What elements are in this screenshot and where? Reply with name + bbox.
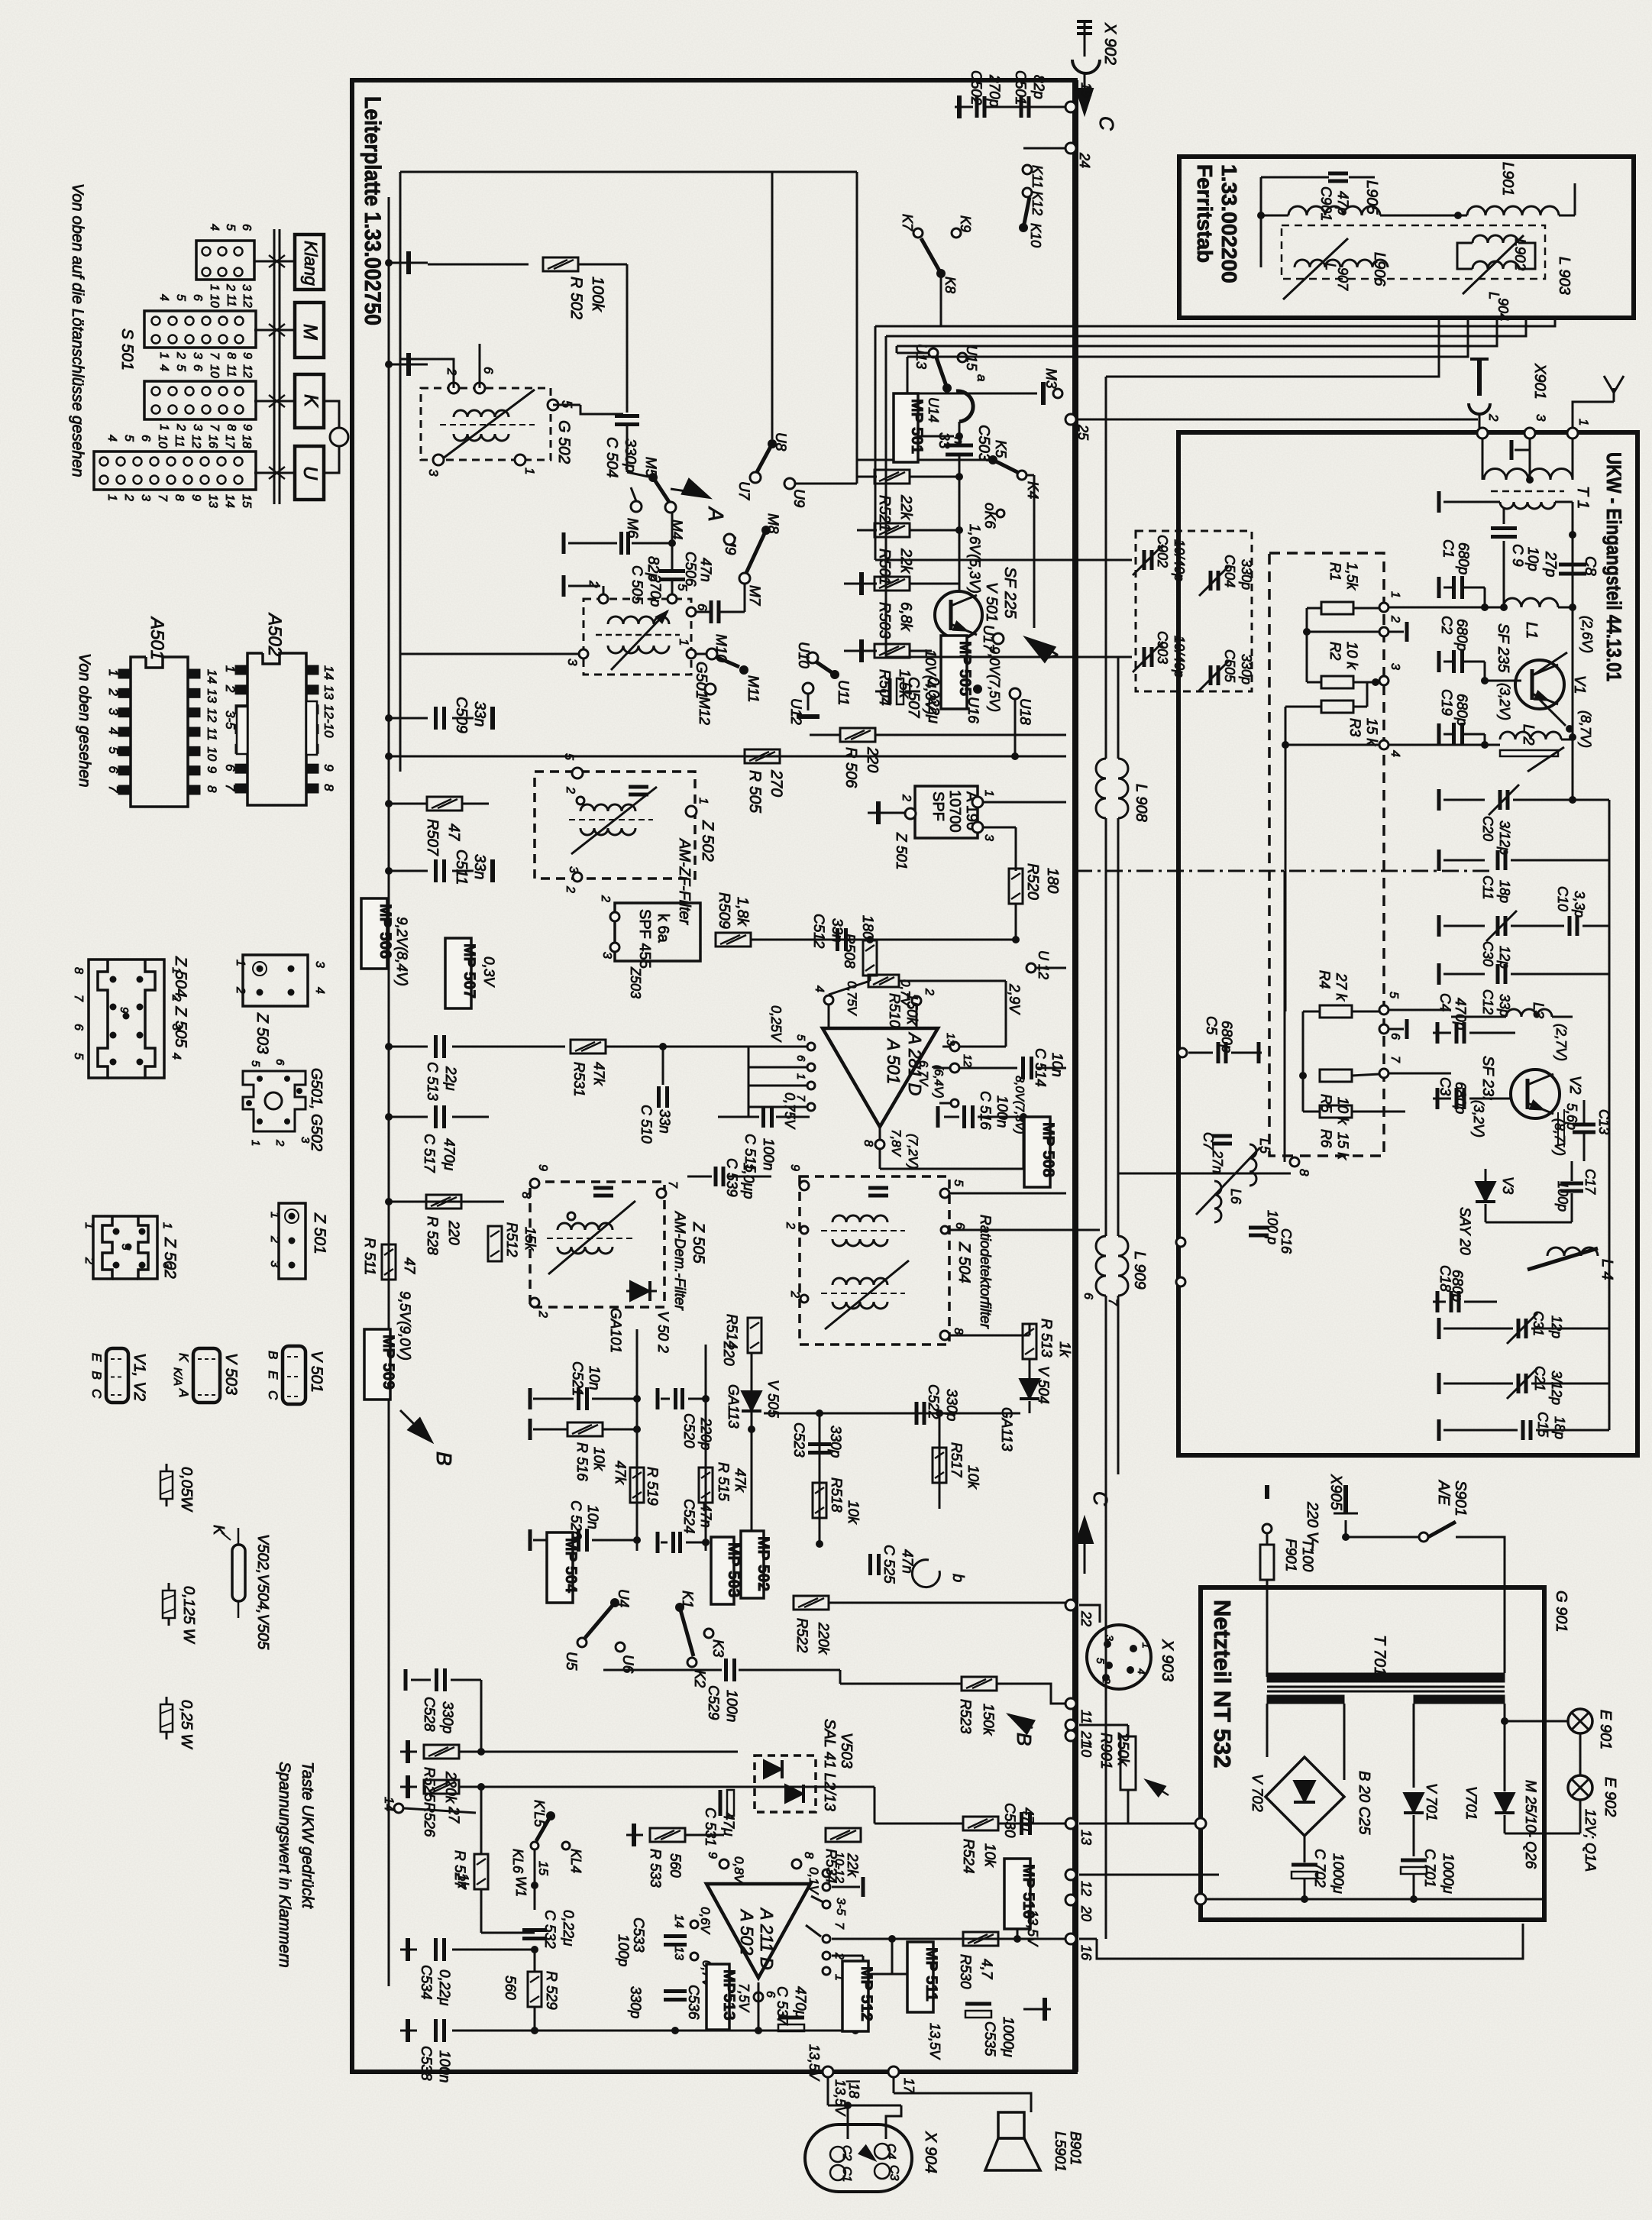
svg-text:5: 5: [174, 364, 187, 371]
svg-text:R 516: R 516: [574, 1442, 590, 1481]
svg-text:M 25/10- Q26: M 25/10- Q26: [1522, 1780, 1538, 1869]
svg-text:470μ: 470μ: [441, 1138, 457, 1171]
svg-text:16: 16: [206, 435, 219, 448]
svg-text:11: 11: [1078, 1710, 1094, 1724]
svg-text:2: 2: [587, 580, 601, 588]
svg-text:1: 1: [1389, 591, 1401, 598]
svg-text:C19: C19: [1438, 689, 1454, 716]
svg-text:3: 3: [106, 708, 121, 716]
svg-text:C501: C501: [1012, 70, 1028, 105]
svg-text:(7,2V): (7,2V): [906, 1134, 920, 1169]
svg-text:(6,4V): (6,4V): [932, 1065, 945, 1099]
svg-text:6: 6: [953, 1222, 966, 1229]
svg-text:U11: U11: [835, 680, 851, 705]
svg-text:25: 25: [1075, 424, 1091, 441]
svg-text:B: B: [89, 1371, 104, 1380]
svg-text:2: 2: [900, 794, 913, 801]
svg-text:100n: 100n: [994, 1095, 1010, 1128]
svg-text:X 902: X 902: [1101, 22, 1119, 65]
svg-text:R534: R534: [823, 1849, 839, 1883]
svg-text:22k: 22k: [844, 1853, 860, 1878]
svg-text:11: 11: [225, 294, 238, 307]
svg-text:2: 2: [536, 1310, 549, 1318]
svg-text:6: 6: [481, 367, 496, 374]
svg-text:U9: U9: [790, 489, 807, 508]
svg-text:C529: C529: [705, 1685, 721, 1720]
svg-text:L5: L5: [1257, 1138, 1272, 1154]
svg-text:5: 5: [119, 1244, 132, 1251]
svg-text:2: 2: [273, 1139, 286, 1147]
svg-text:14: 14: [322, 665, 336, 680]
svg-text:680p: 680p: [1455, 542, 1471, 574]
svg-text:270p: 270p: [986, 74, 1002, 107]
svg-text:100n: 100n: [436, 2050, 452, 2082]
svg-text:13: 13: [322, 685, 336, 700]
svg-text:C 517: C 517: [421, 1134, 437, 1173]
svg-text:9,2V(8,4V): 9,2V(8,4V): [393, 917, 409, 986]
svg-text:C10: C10: [1555, 886, 1570, 911]
svg-text:C505: C505: [1222, 649, 1237, 683]
svg-text:AM-Dem.-Filter: AM-Dem.-Filter: [671, 1211, 687, 1310]
svg-text:R531: R531: [571, 1062, 587, 1096]
svg-text:SAY 20: SAY 20: [1456, 1207, 1473, 1255]
svg-text:C 516: C 516: [977, 1091, 993, 1130]
svg-text:GA101: GA101: [607, 1308, 623, 1353]
svg-text:5: 5: [224, 224, 237, 231]
svg-text:C538: C538: [418, 2046, 434, 2081]
svg-text:K2: K2: [691, 1670, 707, 1688]
svg-text:C503: C503: [975, 425, 992, 461]
svg-text:KL4: KL4: [568, 1849, 584, 1873]
svg-text:47: 47: [445, 824, 462, 841]
svg-text:C: C: [266, 1390, 280, 1400]
svg-text:R6: R6: [1317, 1129, 1334, 1148]
svg-text:R3: R3: [1346, 718, 1363, 737]
svg-text:12: 12: [241, 364, 254, 378]
svg-text:T 1: T 1: [1574, 486, 1592, 509]
svg-text:10k: 10k: [590, 1447, 606, 1471]
svg-text:2: 2: [564, 786, 577, 794]
svg-text:10: 10: [1078, 1742, 1094, 1757]
svg-text:V3: V3: [1499, 1176, 1515, 1195]
svg-text:Z 504, Z 505: Z 504, Z 505: [172, 956, 189, 1047]
svg-text:14: 14: [223, 494, 236, 508]
svg-text:1: 1: [697, 798, 710, 804]
svg-text:C31: C31: [1531, 1311, 1546, 1336]
svg-text:9: 9: [189, 494, 202, 501]
svg-text:U: U: [299, 466, 321, 481]
svg-text:5: 5: [122, 435, 135, 442]
svg-text:(3,2V): (3,2V): [1497, 683, 1512, 720]
svg-text:K: K: [300, 394, 322, 408]
svg-text:100n: 100n: [760, 1138, 776, 1170]
svg-text:MP 508: MP 508: [1039, 1122, 1057, 1177]
svg-text:U14: U14: [926, 397, 941, 422]
svg-text:330p: 330p: [627, 1986, 643, 2018]
svg-text:8: 8: [225, 352, 238, 359]
svg-text:MP513: MP513: [720, 1969, 738, 2021]
svg-text:T 701: T 701: [1371, 1635, 1389, 1676]
svg-text:1,8k: 1,8k: [734, 897, 751, 927]
svg-text:X 903: X 903: [1159, 1639, 1176, 1681]
svg-text:MP 512: MP 512: [858, 1966, 875, 2021]
svg-text:0,22μ: 0,22μ: [560, 1910, 576, 1947]
svg-text:0,25 W: 0,25 W: [178, 1700, 195, 1749]
svg-text:3: 3: [982, 834, 995, 841]
svg-text:1000μ: 1000μ: [1440, 1853, 1456, 1894]
svg-text:L 2: L 2: [1520, 724, 1537, 745]
svg-text:MP 501: MP 501: [908, 399, 926, 454]
svg-text:47: 47: [401, 1257, 417, 1275]
svg-text:10 k: 10 k: [1334, 1097, 1350, 1125]
svg-text:330p: 330p: [1239, 654, 1254, 684]
svg-text:82p: 82p: [1030, 75, 1046, 99]
svg-text:C 701: C 701: [1421, 1849, 1437, 1888]
svg-text:C 532: C 532: [542, 1910, 558, 1949]
svg-text:U 12: U 12: [1036, 950, 1051, 979]
svg-text:K: K: [176, 1353, 191, 1362]
svg-text:15 k: 15 k: [1334, 1132, 1350, 1160]
svg-text:0,3V: 0,3V: [480, 956, 496, 988]
svg-text:C12: C12: [1480, 989, 1495, 1015]
svg-text:K/A: K/A: [171, 1367, 184, 1386]
svg-text:R503: R503: [876, 602, 893, 639]
svg-text:R 533: R 533: [647, 1849, 663, 1888]
svg-text:5: 5: [106, 746, 121, 754]
svg-text:6: 6: [695, 604, 710, 611]
svg-text:12: 12: [241, 294, 254, 308]
svg-text:2: 2: [1486, 413, 1501, 422]
svg-text:R 513: R 513: [1038, 1319, 1054, 1358]
svg-text:C506: C506: [682, 552, 698, 587]
svg-text:9: 9: [241, 424, 254, 431]
svg-text:(2,7V): (2,7V): [1553, 1024, 1569, 1061]
svg-text:12: 12: [1078, 1881, 1094, 1896]
svg-text:7,5V: 7,5V: [736, 1983, 752, 2013]
svg-text:SF 235: SF 235: [1495, 623, 1511, 673]
svg-text:4: 4: [313, 987, 326, 994]
svg-text:V503: V503: [838, 1733, 855, 1769]
svg-text:220: 220: [445, 1220, 461, 1245]
svg-text:C17: C17: [1582, 1169, 1598, 1195]
svg-text:V 501: V 501: [983, 582, 1000, 622]
svg-text:(3,2V): (3,2V): [1471, 1100, 1486, 1138]
svg-text:680p: 680p: [1449, 1270, 1465, 1302]
svg-text:3: 3: [240, 284, 253, 291]
svg-text:C11: C11: [1480, 875, 1495, 900]
svg-text:M5: M5: [642, 457, 658, 477]
svg-text:250k: 250k: [1114, 1732, 1131, 1766]
svg-text:2: 2: [923, 988, 936, 995]
svg-text:R520: R520: [1024, 863, 1041, 900]
svg-text:907: 907: [1335, 267, 1350, 291]
svg-text:C8: C8: [1582, 556, 1599, 576]
svg-text:10700: 10700: [946, 790, 963, 833]
svg-text:U5: U5: [563, 1652, 579, 1671]
svg-text:10/40p: 10/40p: [1172, 539, 1187, 581]
svg-text:KL6: KL6: [510, 1849, 525, 1874]
svg-text:20: 20: [1078, 1905, 1094, 1921]
svg-text:47p: 47p: [1334, 191, 1350, 215]
svg-text:E: E: [89, 1353, 104, 1362]
svg-text:100p: 100p: [1555, 1181, 1570, 1212]
svg-text:X 904: X 904: [922, 2131, 939, 2173]
svg-text:18: 18: [240, 435, 253, 448]
svg-text:1: 1: [677, 639, 691, 646]
svg-text:K9: K9: [958, 215, 973, 232]
svg-text:1: 1: [223, 665, 238, 672]
svg-text:C30: C30: [1480, 941, 1495, 966]
svg-text:Leiterplatte 1.33.002750: Leiterplatte 1.33.002750: [360, 96, 385, 325]
svg-text:B: B: [1013, 1733, 1036, 1746]
svg-text:K4: K4: [1024, 481, 1040, 499]
svg-text:1,0μp: 1,0μp: [740, 1163, 756, 1199]
svg-text:L901: L901: [1499, 162, 1516, 196]
svg-text:C 531: C 531: [702, 1807, 718, 1846]
svg-text:10n: 10n: [586, 1366, 602, 1390]
svg-text:1: 1: [157, 352, 170, 359]
svg-text:1: 1: [82, 1222, 95, 1229]
svg-text:330p: 330p: [827, 1426, 843, 1458]
svg-text:MP 505: MP 505: [956, 641, 974, 696]
svg-text:C2: C2: [840, 2145, 853, 2161]
svg-text:8: 8: [952, 1328, 965, 1335]
svg-text:10: 10: [205, 746, 219, 761]
svg-text:15 k: 15 k: [1363, 718, 1379, 746]
svg-text:M12: M12: [696, 697, 712, 725]
svg-text:680p: 680p: [1453, 619, 1469, 651]
svg-text:V 702: V 702: [1249, 1774, 1265, 1812]
svg-text:5,6p: 5,6p: [1564, 1103, 1579, 1130]
svg-text:R526: R526: [421, 1802, 437, 1837]
svg-text:R523: R523: [957, 1699, 973, 1734]
svg-text:47k: 47k: [612, 1461, 628, 1485]
svg-text:2: 2: [174, 423, 187, 431]
svg-text:4: 4: [208, 224, 221, 231]
svg-text:b: b: [949, 1574, 966, 1582]
svg-text:A/E: A/E: [1435, 1480, 1452, 1506]
svg-text:L 909: L 909: [1131, 1251, 1148, 1290]
svg-text:SF 225: SF 225: [1001, 567, 1019, 619]
svg-text:R1: R1: [1327, 562, 1343, 581]
svg-text:8: 8: [1297, 1169, 1311, 1176]
svg-text:K'L5: K'L5: [532, 1800, 547, 1827]
svg-text:6: 6: [223, 764, 238, 772]
svg-text:470p: 470p: [1452, 998, 1468, 1030]
svg-text:13,5V: 13,5V: [1025, 1910, 1040, 1947]
svg-text:R509: R509: [716, 892, 732, 929]
svg-text:7: 7: [223, 784, 238, 791]
svg-text:11: 11: [205, 727, 219, 741]
svg-text:220k: 220k: [815, 1622, 831, 1655]
svg-text:22: 22: [1078, 1610, 1094, 1626]
svg-text:3-5: 3-5: [223, 710, 238, 730]
svg-text:R901: R901: [1098, 1733, 1114, 1769]
svg-text:R 529: R 529: [543, 1971, 559, 2010]
svg-text:C15: C15: [1535, 1412, 1550, 1438]
svg-text:X901: X901: [1531, 363, 1548, 400]
svg-text:Z503: Z503: [628, 966, 643, 998]
svg-text:10k: 10k: [965, 1465, 981, 1490]
svg-text:13: 13: [672, 1947, 685, 1960]
svg-text:C 525: C 525: [881, 1545, 897, 1584]
svg-text:12-10: 12-10: [322, 704, 336, 738]
svg-text:33n: 33n: [471, 854, 488, 879]
svg-text:1k: 1k: [1056, 1341, 1072, 1358]
svg-text:V 501: V 501: [308, 1351, 325, 1393]
svg-text:C528: C528: [421, 1697, 437, 1732]
svg-text:C533: C533: [630, 1917, 646, 1953]
svg-text:Von oben gesehen: Von oben gesehen: [76, 653, 93, 788]
svg-text:(2,6V): (2,6V): [1579, 616, 1595, 653]
svg-text:C504: C504: [1222, 555, 1237, 587]
svg-text:0,125 W: 0,125 W: [180, 1586, 197, 1645]
svg-text:47k: 47k: [590, 1062, 606, 1086]
svg-text:3: 3: [567, 866, 580, 873]
svg-text:904: 904: [1495, 298, 1511, 321]
svg-text:27n: 27n: [1210, 1150, 1225, 1173]
svg-text:6: 6: [72, 1024, 85, 1031]
svg-text:0,75V: 0,75V: [782, 1092, 797, 1130]
svg-text:4: 4: [157, 364, 170, 371]
svg-text:R2: R2: [1327, 642, 1343, 661]
svg-text:R510: R510: [886, 993, 902, 1028]
svg-text:C512: C512: [810, 914, 826, 949]
svg-text:C502: C502: [968, 70, 984, 105]
svg-text:GA113: GA113: [998, 1407, 1014, 1451]
svg-text:10p: 10p: [1524, 547, 1540, 571]
svg-text:V2: V2: [1566, 1076, 1583, 1094]
svg-text:B 20 C25: B 20 C25: [1356, 1771, 1372, 1835]
svg-text:4: 4: [813, 985, 826, 992]
svg-text:22k: 22k: [897, 494, 914, 520]
svg-text:47n: 47n: [697, 1503, 713, 1528]
svg-text:C 539: C 539: [723, 1158, 739, 1197]
svg-text:C1: C1: [840, 2167, 853, 2182]
svg-text:2: 2: [122, 494, 135, 501]
svg-text:Ratiodetektorfilter: Ratiodetektorfilter: [977, 1215, 993, 1329]
svg-text:180: 180: [859, 915, 875, 940]
svg-text:270: 270: [768, 769, 785, 797]
svg-text:9,5V(9,0V): 9,5V(9,0V): [396, 1291, 412, 1361]
svg-text:7: 7: [666, 1181, 679, 1189]
svg-text:12p: 12p: [1549, 1315, 1564, 1338]
svg-text:C524: C524: [681, 1499, 697, 1533]
svg-text:X905: X905: [1327, 1474, 1344, 1511]
svg-text:9: 9: [706, 1852, 719, 1859]
svg-text:A: A: [1039, 645, 1062, 661]
svg-text:82p: 82p: [645, 556, 661, 581]
svg-text:C523: C523: [790, 1422, 807, 1458]
svg-text:22μ: 22μ: [442, 1066, 458, 1091]
svg-text:C2: C2: [1438, 616, 1454, 635]
svg-text:C7: C7: [1201, 1132, 1216, 1150]
svg-text:7: 7: [72, 995, 85, 1002]
svg-text:8: 8: [322, 784, 336, 791]
svg-text:G 502: G 502: [555, 420, 573, 464]
svg-text:G 901: G 901: [1553, 1591, 1570, 1632]
svg-text:C534: C534: [418, 1965, 434, 1999]
svg-text:7: 7: [208, 424, 221, 432]
svg-text:5: 5: [1094, 1658, 1107, 1664]
svg-text:Z 501: Z 501: [311, 1212, 328, 1254]
svg-text:Netzteil NT 532: Netzteil NT 532: [1209, 1600, 1236, 1769]
svg-text:k 6a: k 6a: [655, 914, 671, 943]
svg-text:1: 1: [982, 790, 995, 797]
svg-text:33p: 33p: [1497, 994, 1512, 1017]
svg-text:C530: C530: [1001, 1803, 1017, 1838]
svg-text:150k: 150k: [904, 993, 920, 1026]
svg-text:C20: C20: [1480, 816, 1495, 841]
svg-text:1k: 1k: [454, 1873, 470, 1890]
svg-text:17: 17: [901, 2078, 917, 2094]
svg-text:33n: 33n: [829, 918, 845, 943]
svg-text:4: 4: [105, 435, 118, 442]
svg-text:C901: C901: [1317, 186, 1334, 221]
svg-text:9: 9: [536, 1164, 549, 1171]
svg-text:B: B: [266, 1351, 280, 1359]
svg-text:V502,V504,V505: V502,V504,V505: [254, 1534, 271, 1650]
svg-text:R 506: R 506: [842, 747, 859, 788]
svg-text:5: 5: [794, 1034, 807, 1041]
svg-text:Z 504: Z 504: [955, 1241, 973, 1283]
svg-text:8: 8: [519, 1192, 532, 1199]
svg-text:A 211 D: A 211 D: [757, 1907, 777, 1970]
svg-text:180: 180: [1044, 868, 1061, 893]
svg-text:4: 4: [106, 727, 121, 734]
svg-text:100n: 100n: [723, 1690, 739, 1722]
svg-text:27p: 27p: [1542, 551, 1559, 577]
svg-text:R517: R517: [948, 1442, 964, 1478]
svg-text:V 504: V 504: [1035, 1366, 1051, 1404]
svg-text:220: 220: [864, 746, 881, 772]
svg-text:V 50 2: V 50 2: [655, 1311, 671, 1353]
svg-text:SPF: SPF: [929, 791, 946, 821]
svg-text:B: B: [432, 1451, 456, 1466]
svg-text:100p: 100p: [615, 1934, 631, 1966]
svg-text:U4: U4: [615, 1589, 631, 1607]
svg-text:8: 8: [173, 494, 186, 501]
svg-text:C: C: [1089, 1491, 1112, 1506]
svg-text:4: 4: [1136, 1668, 1148, 1675]
svg-text:2: 2: [223, 684, 238, 693]
svg-text:7: 7: [1106, 1299, 1119, 1306]
svg-text:5: 5: [174, 294, 187, 301]
svg-text:27 k: 27 k: [1333, 972, 1349, 1002]
svg-text:15: 15: [240, 494, 253, 508]
svg-text:R530: R530: [957, 1954, 973, 1989]
svg-text:10 k: 10 k: [1343, 642, 1359, 670]
svg-text:6: 6: [191, 294, 204, 301]
svg-text:E 902: E 902: [1602, 1777, 1618, 1817]
svg-text:C 510: C 510: [638, 1105, 654, 1144]
svg-text:0,8V: 0,8V: [732, 1856, 746, 1885]
svg-text:3-5: 3-5: [834, 1898, 847, 1915]
svg-text:6: 6: [191, 364, 204, 371]
svg-text:1: 1: [208, 284, 221, 291]
svg-text:K5: K5: [992, 440, 1008, 458]
svg-text:(8,7V): (8,7V): [1578, 710, 1593, 748]
svg-text:680p: 680p: [1218, 1021, 1234, 1053]
svg-text:C 513: C 513: [424, 1062, 440, 1101]
svg-text:2: 2: [784, 1222, 797, 1229]
svg-text:5: 5: [562, 753, 575, 760]
svg-text:R 528: R 528: [424, 1216, 440, 1255]
svg-text:K10: K10: [1028, 223, 1043, 248]
svg-text:330p: 330p: [1239, 559, 1254, 590]
svg-text:17: 17: [223, 435, 236, 449]
svg-text:11: 11: [225, 364, 238, 377]
